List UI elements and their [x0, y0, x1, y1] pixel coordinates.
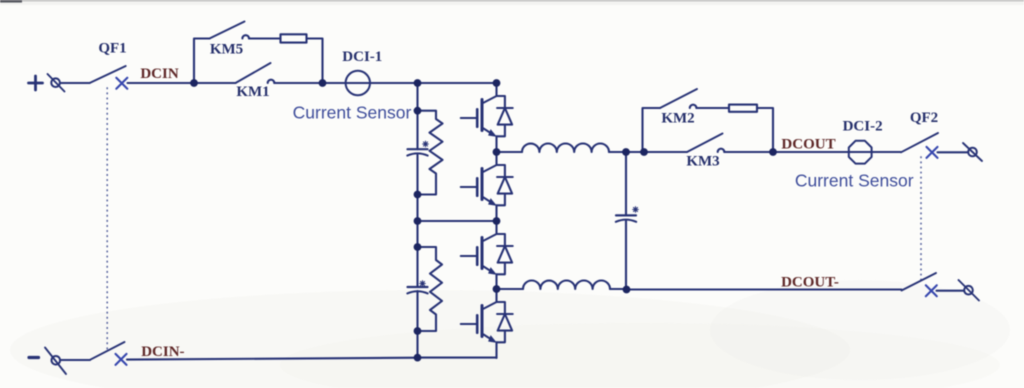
wire R3 back to output line: [757, 108, 773, 152]
current sensor DCI-1 circle: [346, 71, 370, 95]
positive input terminal + sign: [29, 76, 43, 90]
wire L2 to output minus node: [610, 288, 627, 290]
svg-text:DCI-1: DCI-1: [342, 49, 382, 65]
wire X to output minus terminal: [937, 290, 964, 292]
breaker QF2 lower pole blade: [902, 273, 937, 291]
breaker QF1 upper contact X: [116, 78, 127, 89]
wire R1 to node: [307, 39, 323, 84]
discharge resistor R4 zigzag: [418, 247, 443, 331]
wire QF1 to node DCIN: [128, 82, 195, 84]
svg-text:DCOUT-: DCOUT-: [781, 275, 839, 291]
precharge resistor R3: [729, 105, 757, 112]
capacitor C1 plates: [408, 148, 428, 150]
svg-text:Current Sensor: Current Sensor: [795, 171, 914, 191]
IGBT Q4 with diode D4: [461, 289, 513, 358]
DC bus vertical left: [416, 83, 418, 358]
junction node R4 top: [414, 243, 422, 251]
junction node KM2 rejoin: [769, 148, 777, 156]
output capacitor C3 branch wire: [625, 152, 627, 290]
inductor L1: [522, 143, 609, 152]
output capacitor C3 plates: [616, 214, 636, 216]
contactor KM2 fixed contact arc: [690, 105, 697, 108]
positive output terminal slash: [963, 143, 982, 161]
junction node leg1 top: [493, 79, 501, 87]
wire KM5 to resistor R1: [249, 37, 281, 39]
junction node C3 top: [622, 148, 630, 156]
current sensor DCI-2 octagon: [849, 141, 872, 164]
junction node R4 bottom: [414, 327, 422, 335]
junction node DCIN: [190, 79, 198, 87]
svg-text:KM3: KM3: [686, 154, 719, 170]
capacitor C3 polarity mark: [633, 207, 639, 213]
contactor KM1 blade: [236, 63, 271, 83]
capacitor C2 plates: [408, 286, 428, 288]
scan artifact: top edge dark line: [0, 0, 1024, 1]
breaker QF2 lower contact X: [926, 285, 937, 296]
breaker QF2 linkage dotted line: [920, 157, 922, 283]
wire DCOUT node through sensor to breaker QF2: [773, 151, 901, 153]
junction node leg1 midpoint: [493, 148, 501, 156]
contactor KM2 blade: [660, 89, 697, 108]
wire mid rail between half-bridges: [418, 220, 497, 222]
breaker QF2 upper contact X: [927, 147, 938, 158]
svg-text:DCI-2: DCI-2: [843, 119, 883, 135]
breaker QF2 upper pole blade: [901, 133, 938, 152]
junction node bus bottom: [414, 354, 422, 362]
wire terminal to QF1 lower pole: [60, 359, 90, 361]
contactor KM5 fixed contact arc: [242, 35, 249, 38]
contactor KM3 blade: [687, 134, 723, 153]
IGBT Q1 with diode D1: [461, 83, 513, 152]
junction node R2 bottom: [414, 191, 422, 199]
positive terminal slash: [48, 74, 65, 92]
junction node R2 top: [414, 107, 422, 115]
contactor KM1 fixed contact arc: [268, 80, 275, 83]
svg-text:QF2: QF2: [910, 110, 938, 126]
contactor KM5 branch wire up: [194, 39, 210, 84]
svg-text:DCOUT: DCOUT: [781, 137, 835, 153]
positive input terminal circle: [51, 78, 60, 87]
breaker QF1 linkage dotted line: [106, 88, 108, 351]
IGBT Q2 with diode D2: [461, 152, 513, 221]
wire DCOUT- line: [627, 288, 902, 290]
wire KM2 to resistor R3: [696, 107, 729, 109]
negative output terminal slash: [959, 280, 980, 301]
svg-text:KM1: KM1: [236, 84, 269, 100]
svg-text:KM2: KM2: [661, 111, 694, 127]
negative output terminal circle: [964, 286, 973, 295]
junction node bus mid: [414, 217, 422, 225]
wire node to KM3: [644, 151, 687, 153]
negative input terminal - sign: [29, 356, 39, 359]
wire bottom rail DCIN- to leg: [418, 357, 497, 359]
wire KM1 through sensor to DC bus: [194, 82, 497, 84]
junction node KM2 split: [640, 148, 648, 156]
svg-text:QF1: QF1: [98, 41, 126, 57]
contactor KM2 branch wire: [643, 108, 661, 152]
positive output terminal circle: [968, 148, 977, 157]
wire QF2 to output terminal: [938, 151, 969, 153]
junction node leg mid rail: [493, 217, 501, 225]
svg-text:Current Sensor: Current Sensor: [293, 103, 412, 123]
wire L1 to output node: [609, 151, 644, 153]
breaker QF1 lower pole blade: [90, 342, 125, 360]
junction node leg2 midpoint: [493, 285, 501, 293]
inductor L2: [523, 281, 610, 290]
wire leg2 midpoint to inductor L2: [497, 288, 524, 290]
junction node bus top: [414, 79, 422, 87]
negative input terminal circle: [52, 356, 61, 365]
junction node C3 bottom: [623, 286, 631, 294]
discharge resistor R2 zigzag: [418, 111, 443, 195]
breaker QF1 lower contact X: [116, 354, 127, 365]
wire KM3 to DCOUT node: [724, 151, 773, 153]
precharge resistor R1: [281, 34, 307, 42]
negative terminal slash: [45, 348, 66, 375]
wire terminal to QF1: [60, 82, 90, 84]
wire DCIN- line: [127, 358, 418, 360]
svg-text:DCIN-: DCIN-: [141, 344, 184, 360]
junction node KM1/R1: [319, 79, 327, 87]
svg-text:DCIN: DCIN: [140, 66, 179, 82]
contactor KM5 blade: [210, 22, 245, 39]
contactor KM3 fixed contact arc: [718, 149, 725, 152]
svg-text:KM5: KM5: [210, 42, 243, 58]
wire leg1 midpoint to inductor L1: [497, 151, 523, 153]
IGBT Q3 with diode D3: [461, 221, 513, 290]
breaker QF1 upper pole blade: [90, 66, 126, 83]
capacitor C1 polarity mark: [423, 141, 429, 147]
capacitor C2 polarity mark: [420, 281, 426, 287]
